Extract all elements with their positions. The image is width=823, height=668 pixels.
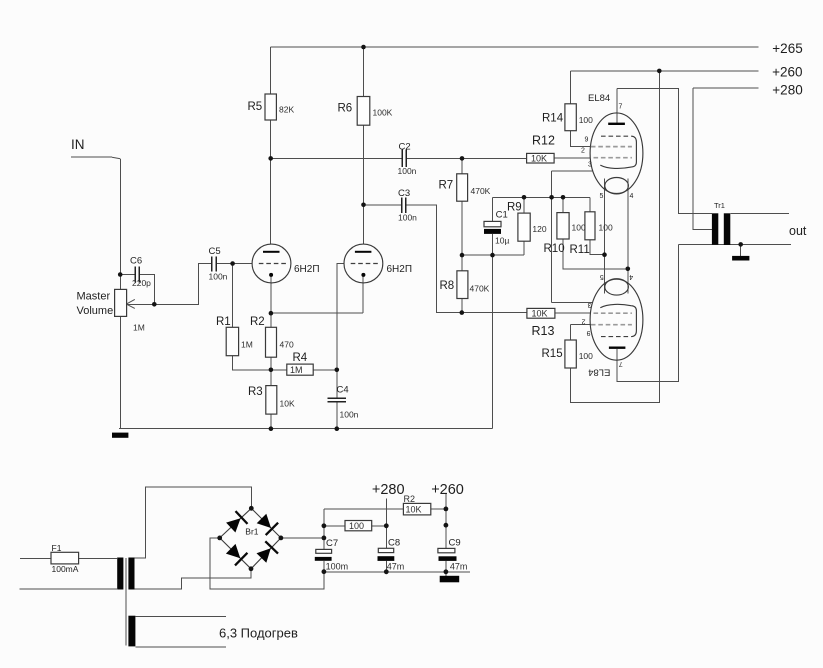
svg-text:C3: C3 <box>398 188 410 199</box>
svg-text:1M: 1M <box>133 323 145 333</box>
svg-text:R4: R4 <box>293 352 308 364</box>
svg-text:4: 4 <box>630 193 634 200</box>
svg-text:EL84: EL84 <box>588 93 610 104</box>
svg-text:47m: 47m <box>387 562 405 572</box>
svg-text:R12: R12 <box>532 134 555 148</box>
svg-text:6Н2П: 6Н2П <box>294 264 320 275</box>
svg-text:470K: 470K <box>470 284 490 294</box>
svg-text:R15: R15 <box>542 348 563 360</box>
svg-text:R11: R11 <box>570 244 590 256</box>
svg-text:5: 5 <box>600 193 604 200</box>
svg-text:100n: 100n <box>398 213 417 223</box>
svg-text:2: 2 <box>581 148 585 155</box>
svg-text:R2: R2 <box>404 494 416 504</box>
svg-text:+280: +280 <box>372 482 405 498</box>
svg-text:3: 3 <box>587 301 591 308</box>
svg-text:F1: F1 <box>52 543 62 553</box>
svg-text:EL84: EL84 <box>588 367 610 378</box>
svg-text:R14: R14 <box>542 113 564 125</box>
svg-text:100K: 100K <box>373 108 393 118</box>
svg-text:100: 100 <box>579 115 593 125</box>
svg-text:Br1: Br1 <box>245 527 258 537</box>
svg-text:10K: 10K <box>406 505 422 515</box>
svg-text:120: 120 <box>532 224 546 234</box>
svg-text:10K: 10K <box>280 399 295 409</box>
svg-text:C5: C5 <box>209 246 221 257</box>
svg-text:10K: 10K <box>532 309 548 319</box>
svg-text:100: 100 <box>579 351 593 361</box>
svg-text:+280: +280 <box>772 83 802 98</box>
svg-text:R2: R2 <box>250 316 265 328</box>
svg-text:R6: R6 <box>338 103 353 115</box>
svg-text:10µ: 10µ <box>495 236 509 246</box>
svg-text:100: 100 <box>572 223 586 233</box>
svg-text:C8: C8 <box>388 537 400 548</box>
svg-text:9: 9 <box>586 329 590 336</box>
svg-text:R3: R3 <box>248 386 263 398</box>
svg-text:R7: R7 <box>439 180 454 192</box>
svg-text:+260: +260 <box>772 65 802 80</box>
svg-text:R5: R5 <box>248 101 263 113</box>
svg-text:C2: C2 <box>399 142 411 153</box>
svg-text:470K: 470K <box>471 186 491 196</box>
svg-text:R10: R10 <box>544 243 565 255</box>
svg-text:6Н2П: 6Н2П <box>387 264 413 275</box>
svg-text:100m: 100m <box>326 562 349 572</box>
svg-text:3: 3 <box>588 162 592 169</box>
svg-text:+265: +265 <box>772 41 802 56</box>
svg-text:100n: 100n <box>398 166 417 176</box>
svg-text:220p: 220p <box>132 278 151 288</box>
svg-text:out: out <box>789 224 807 238</box>
svg-text:R13: R13 <box>532 324 555 338</box>
svg-text:47m: 47m <box>450 562 468 572</box>
svg-text:100: 100 <box>599 223 613 233</box>
svg-text:5: 5 <box>600 273 604 280</box>
svg-text:R9: R9 <box>507 202 522 214</box>
svg-text:4: 4 <box>629 273 633 280</box>
svg-text:Volume: Volume <box>77 305 114 317</box>
svg-text:470: 470 <box>280 340 294 350</box>
svg-text:100n: 100n <box>209 272 228 282</box>
svg-text:7: 7 <box>619 360 623 367</box>
svg-text:100n: 100n <box>340 410 359 420</box>
svg-text:Tr1: Tr1 <box>714 201 725 210</box>
svg-text:C1: C1 <box>496 209 508 220</box>
svg-text:1M: 1M <box>290 365 303 375</box>
svg-text:6,3 Подогрев: 6,3 Подогрев <box>219 626 298 641</box>
svg-text:R8: R8 <box>440 280 455 292</box>
svg-text:7: 7 <box>619 104 623 111</box>
svg-text:IN: IN <box>71 137 85 152</box>
svg-text:C4: C4 <box>337 385 349 396</box>
svg-text:+260: +260 <box>431 482 464 498</box>
svg-text:C9: C9 <box>449 537 461 548</box>
svg-text:2: 2 <box>581 318 585 325</box>
svg-text:Master: Master <box>77 291 111 303</box>
svg-text:82K: 82K <box>279 105 294 115</box>
svg-text:100mA: 100mA <box>52 564 79 574</box>
svg-text:1M: 1M <box>241 340 253 350</box>
svg-text:C7: C7 <box>326 538 338 549</box>
svg-text:9: 9 <box>585 137 589 144</box>
svg-text:R1: R1 <box>216 316 231 328</box>
svg-text:C6: C6 <box>130 256 142 267</box>
svg-text:10K: 10K <box>531 154 547 164</box>
svg-text:100: 100 <box>349 521 364 531</box>
